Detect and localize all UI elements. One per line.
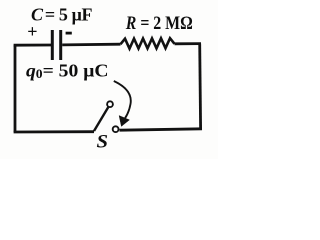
switch S lever arm bbox=[94, 107, 108, 131]
switch S lever open-end circle bbox=[107, 101, 113, 107]
switch S fixed contact circle bbox=[113, 126, 119, 132]
capacitor C bbox=[52, 30, 60, 60]
wire top-left segment (left corner to capacitor) bbox=[14, 44, 51, 47]
wire right vertical bbox=[198, 44, 202, 129]
svg-text:R = 2 MΩ: R = 2 MΩ bbox=[125, 13, 193, 34]
switch closing arrow arc bbox=[114, 81, 131, 119]
wire left vertical bbox=[14, 45, 17, 132]
svg-text:+: + bbox=[27, 22, 37, 42]
wire top-right segment (resistor to right corner) bbox=[175, 42, 202, 45]
svg-text:S: S bbox=[97, 133, 109, 153]
switch closing arrowhead bbox=[119, 116, 129, 127]
label minus polarity bbox=[66, 32, 72, 35]
wire top-middle segment (capacitor to resistor) bbox=[62, 43, 120, 47]
svg-text:C= 5 μF: C= 5 μF bbox=[31, 5, 93, 25]
wire bottom-left segment (switch to left corner) bbox=[14, 130, 94, 133]
wire bottom-right segment (right corner to switch contact) bbox=[120, 129, 203, 130]
resistor R zigzag bbox=[121, 38, 175, 48]
